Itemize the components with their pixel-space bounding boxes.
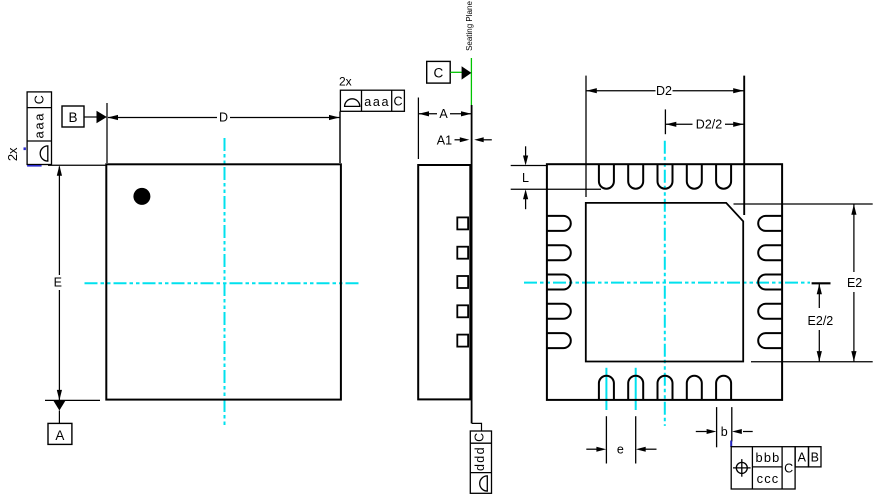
svg-text:aaa: aaa bbox=[364, 95, 390, 109]
pad L1 bbox=[547, 216, 571, 231]
seating plane line bbox=[470, 58, 472, 105]
svg-text:aaa: aaa bbox=[31, 112, 46, 139]
svg-text:A1: A1 bbox=[437, 133, 452, 147]
right pads (bottom view) bbox=[758, 216, 782, 348]
pad pitch extension centerlines (cyan) bbox=[605, 368, 607, 410]
svg-text:A: A bbox=[439, 107, 448, 121]
svg-text:A: A bbox=[798, 451, 807, 465]
centerline vertical (top view) bbox=[224, 138, 226, 425]
svg-text:D2/2: D2/2 bbox=[696, 118, 722, 132]
dimension D2 bbox=[586, 76, 744, 215]
svg-text:B: B bbox=[811, 451, 819, 465]
svg-text:bbb: bbb bbox=[756, 450, 781, 465]
svg-text:ddd: ddd bbox=[473, 446, 487, 471]
terminal S1 bbox=[457, 217, 468, 229]
dimension A bbox=[418, 98, 471, 160]
pad B3 bbox=[658, 376, 673, 400]
svg-text:C: C bbox=[434, 66, 444, 81]
dimension L bbox=[511, 146, 601, 209]
svg-text:A: A bbox=[55, 428, 64, 443]
svg-text:C: C bbox=[784, 461, 793, 475]
tolerance frame 2x profile aaa C (left, rotated) bbox=[5, 92, 52, 166]
svg-text:e: e bbox=[617, 443, 624, 457]
svg-text:b: b bbox=[721, 425, 728, 439]
pad L3 bbox=[547, 275, 571, 290]
centerline vertical (bottom view) bbox=[664, 141, 666, 426]
pad T2 bbox=[628, 165, 643, 189]
dimension D bbox=[107, 103, 340, 163]
svg-text:D2: D2 bbox=[656, 84, 672, 98]
pad T4 bbox=[687, 165, 702, 189]
tolerance frame profile ddd C (bottom, rotated) bbox=[470, 431, 491, 493]
centerline horizontal (top view) bbox=[85, 282, 361, 284]
svg-text:C: C bbox=[393, 95, 402, 109]
pad R4 bbox=[758, 304, 782, 319]
svg-text:E2/2: E2/2 bbox=[808, 314, 834, 328]
pad R2 bbox=[758, 245, 782, 260]
blue artifacts bbox=[24, 147, 26, 150]
svg-text:2x: 2x bbox=[339, 75, 352, 89]
dimension D2/2 bbox=[665, 109, 743, 134]
position symbol bbox=[736, 462, 747, 473]
centerline horizontal (bottom view) bbox=[524, 282, 810, 284]
pad L5 bbox=[547, 333, 571, 348]
terminal S3 bbox=[457, 276, 468, 288]
terminals (side view) bbox=[457, 217, 468, 346]
terminal S4 bbox=[457, 305, 468, 317]
pad T3 bbox=[658, 165, 673, 189]
svg-text:ccc: ccc bbox=[757, 471, 780, 486]
pad L2 bbox=[547, 245, 571, 260]
top pads (bottom view) bbox=[599, 165, 731, 189]
pad B1 bbox=[599, 376, 614, 400]
dimension A1 bbox=[437, 133, 492, 147]
package body (side view) bbox=[418, 165, 470, 399]
tolerance frame 2x profile aaa C (top right) bbox=[339, 75, 404, 164]
pad B4 bbox=[687, 376, 702, 400]
dimension E2/2 bbox=[808, 283, 834, 361]
dimension b bbox=[696, 407, 753, 447]
terminal S5 bbox=[457, 335, 468, 347]
position tolerance frame bbb/ccc C A B bbox=[731, 447, 821, 489]
svg-text:B: B bbox=[68, 110, 77, 125]
terminal S2 bbox=[457, 247, 468, 259]
dimension e bbox=[586, 416, 656, 463]
blue artifact bbox=[730, 441, 732, 448]
pad B5 bbox=[716, 376, 731, 400]
svg-text:L: L bbox=[522, 171, 529, 185]
datum B bbox=[62, 106, 107, 127]
svg-text:C: C bbox=[32, 95, 46, 104]
pad T1 bbox=[599, 165, 614, 189]
svg-text:E2: E2 bbox=[847, 276, 862, 290]
svg-text:Seating Plane: Seating Plane bbox=[465, 1, 474, 51]
svg-text:2x: 2x bbox=[5, 147, 20, 161]
svg-text:D: D bbox=[219, 111, 228, 125]
package outline (top view) bbox=[106, 164, 341, 399]
pad L4 bbox=[547, 304, 571, 319]
package outline (bottom view) bbox=[547, 164, 782, 400]
pad R5 bbox=[758, 333, 782, 348]
datum C bbox=[427, 61, 472, 83]
pad T5 bbox=[716, 165, 731, 189]
pad B2 bbox=[628, 376, 643, 400]
exposed pad with chamfer bbox=[586, 203, 743, 362]
left pads (bottom view) bbox=[547, 216, 571, 348]
pad R1 bbox=[758, 216, 782, 231]
datum A bbox=[48, 401, 72, 445]
pin 1 indicator dot bbox=[133, 188, 150, 205]
dimension E2 bbox=[734, 204, 873, 362]
svg-text:C: C bbox=[472, 433, 486, 442]
svg-text:E: E bbox=[54, 275, 62, 289]
bottom pads (bottom view) bbox=[599, 376, 731, 400]
dimension E bbox=[45, 165, 106, 400]
pad R3 bbox=[758, 275, 782, 290]
